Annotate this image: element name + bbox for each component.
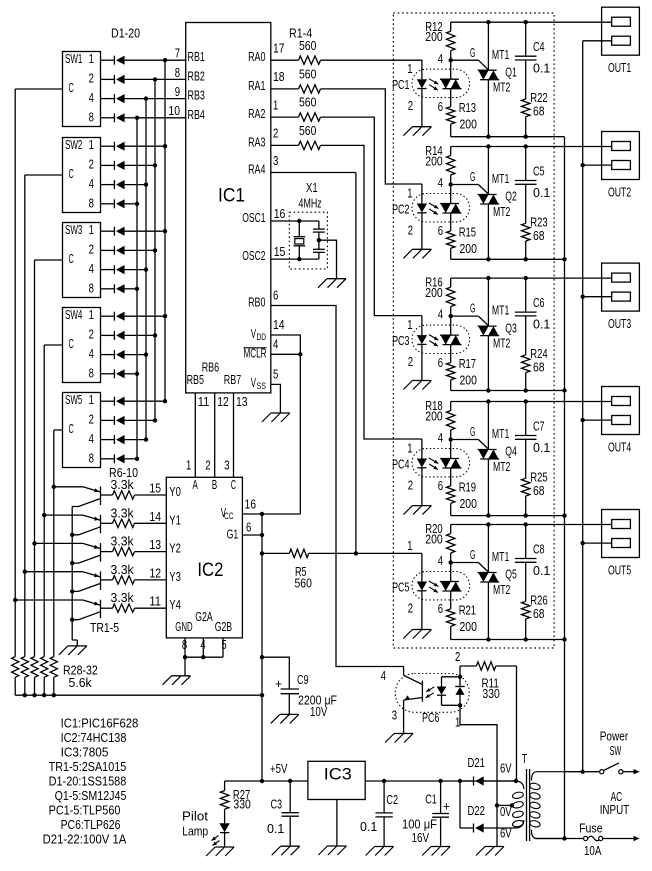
fuse 10A bbox=[584, 836, 588, 840]
junction OUT rail at switch line bbox=[581, 770, 585, 774]
resistor R19 200 bbox=[447, 486, 455, 503]
svg-text:C3: C3 bbox=[271, 797, 283, 811]
svg-text:2: 2 bbox=[89, 243, 94, 257]
svg-text:4: 4 bbox=[89, 347, 94, 361]
svg-text:OUT3: OUT3 bbox=[608, 317, 631, 331]
junction SW3 row1 bbox=[163, 229, 167, 233]
svg-text:560: 560 bbox=[299, 96, 316, 110]
light arrows PC3 bbox=[429, 335, 439, 341]
wire OUT1 lower terminal bbox=[583, 40, 612, 42]
transformer T secondary bbox=[516, 781, 524, 789]
svg-text:1: 1 bbox=[89, 52, 94, 66]
wire RA1 bend to PC2 bbox=[321, 89, 422, 184]
svg-text:560: 560 bbox=[295, 577, 312, 591]
node 4 of PC3 bbox=[449, 314, 453, 318]
diode D15 bbox=[113, 350, 115, 359]
svg-text:16: 16 bbox=[245, 498, 257, 512]
svg-text:2: 2 bbox=[408, 224, 413, 238]
svg-text:3: 3 bbox=[392, 708, 397, 722]
optocoupler PC3 outline bbox=[412, 325, 470, 353]
junction SW3 row2 bbox=[153, 248, 157, 252]
ground transformer 0V bbox=[485, 846, 504, 848]
light arrows PC4 bbox=[429, 458, 439, 464]
svg-text:+: + bbox=[275, 677, 282, 691]
transistor TR3 emitter wire bbox=[35, 542, 83, 544]
svg-text:R22: R22 bbox=[530, 91, 547, 105]
switch SW1 bbox=[63, 52, 101, 127]
resistor R5 560 bbox=[289, 549, 308, 557]
wire diode D14 to bus bbox=[125, 334, 155, 336]
wire primary bottom to fuse bbox=[535, 838, 586, 840]
wire diode D1 to bus bbox=[125, 59, 165, 61]
wire OUT5 lower terminal bbox=[583, 542, 612, 544]
wire bus weight-2 vertical bbox=[154, 79, 156, 420]
svg-text:1: 1 bbox=[407, 318, 412, 332]
wire diode D7 to bus bbox=[125, 184, 146, 186]
ground C9 bbox=[280, 713, 299, 715]
svg-text:4: 4 bbox=[381, 669, 386, 683]
junction C3 at +5V bbox=[288, 779, 292, 783]
wire SW1 common bus vertical bbox=[14, 89, 16, 657]
wire SW2 pin8 to diode bbox=[101, 203, 115, 205]
transistor TR5 emitter wire bbox=[54, 486, 83, 488]
svg-text:1: 1 bbox=[455, 715, 460, 729]
resistor R14 200 bbox=[450, 147, 452, 156]
wire SW2 pin1 to diode bbox=[101, 145, 115, 147]
resistor R9 3.3k bbox=[101, 579, 113, 581]
ground IC2 bbox=[172, 675, 191, 677]
svg-text:1: 1 bbox=[407, 442, 412, 456]
diode D18 bbox=[113, 416, 115, 425]
light arrows PC1 bbox=[429, 79, 439, 85]
junction C4 bottom rail bbox=[524, 135, 528, 139]
svg-text:SW4: SW4 bbox=[65, 308, 82, 322]
svg-text:Q5: Q5 bbox=[505, 568, 517, 582]
junction pin8 tie bbox=[183, 655, 187, 659]
junction pin4 tie bbox=[201, 655, 205, 659]
svg-text:SW: SW bbox=[610, 744, 622, 758]
wire SW3 pin8 to diode bbox=[101, 288, 115, 290]
svg-text:2: 2 bbox=[408, 99, 413, 113]
diode D5 bbox=[113, 142, 115, 151]
resistor R1 560 bbox=[271, 59, 299, 61]
svg-text:SW3: SW3 bbox=[65, 223, 82, 237]
junction OUT5 on rail bbox=[581, 541, 585, 545]
capacitor C5 0.1 bbox=[525, 147, 527, 181]
opto-triac of PC4 bbox=[450, 440, 452, 459]
junction R31 on common line bbox=[42, 693, 46, 697]
svg-text:6: 6 bbox=[438, 356, 443, 370]
wire diode D4 to bus bbox=[125, 117, 137, 119]
junction 0V line bbox=[495, 803, 499, 807]
svg-text:200: 200 bbox=[425, 30, 442, 44]
opto-triac of PC5 bbox=[450, 563, 452, 582]
wire SW3 pin4 to diode bbox=[101, 269, 115, 271]
svg-text:200: 200 bbox=[460, 374, 477, 388]
wire diode D8 to bus bbox=[125, 203, 137, 205]
svg-text:16V: 16V bbox=[412, 831, 430, 845]
IC U2 74HC138 IC2 body bbox=[166, 477, 242, 638]
svg-text:6: 6 bbox=[438, 602, 443, 616]
svg-text:INPUT: INPUT bbox=[600, 803, 630, 817]
resistor R18 200 bbox=[450, 402, 452, 411]
wire primary top to switch bbox=[563, 771, 601, 773]
junction Q2 MT1 top rail bbox=[486, 144, 490, 148]
svg-text:12: 12 bbox=[217, 395, 229, 409]
connector OUT4 bbox=[602, 387, 640, 435]
svg-text:C7: C7 bbox=[533, 420, 545, 434]
svg-text:OSC1: OSC1 bbox=[242, 211, 265, 225]
svg-text:6: 6 bbox=[246, 521, 251, 535]
svg-text:R13: R13 bbox=[459, 101, 476, 115]
svg-text:4: 4 bbox=[89, 91, 94, 105]
svg-text:D1-20: D1-20 bbox=[111, 27, 140, 41]
wire IC3 input rail bbox=[365, 780, 516, 782]
junction VCC rail to C9 bbox=[260, 655, 264, 659]
transistor TR2 emitter wire bbox=[25, 571, 83, 573]
wire PC1 cathode to ground bbox=[421, 89, 423, 127]
svg-text:MT1: MT1 bbox=[492, 304, 509, 318]
svg-text:IC3: IC3 bbox=[324, 764, 352, 783]
wire diode D19 to bus bbox=[125, 439, 146, 441]
junction collector bus row 2 bbox=[70, 561, 74, 565]
junction Q4 MT2 bottom rail bbox=[486, 513, 490, 517]
svg-text:1: 1 bbox=[89, 393, 94, 407]
junction OUT2 on rail bbox=[581, 163, 585, 167]
svg-text:6: 6 bbox=[273, 289, 278, 303]
svg-text:Y0: Y0 bbox=[169, 485, 181, 499]
svg-text:560: 560 bbox=[299, 124, 316, 138]
wire G2A pin 4 bbox=[202, 638, 204, 657]
svg-text:Q2: Q2 bbox=[505, 190, 517, 204]
wire SW2 common C bbox=[25, 174, 63, 176]
junction G1 rail bbox=[260, 533, 264, 537]
light arrows PC5 bbox=[429, 581, 439, 587]
wire diode D10 to bus bbox=[125, 249, 155, 251]
capacitor C3 0.1 bbox=[289, 781, 291, 813]
optocoupler PC2 outline bbox=[412, 194, 470, 222]
junction C5 top rail bbox=[524, 144, 528, 148]
transistor TR5 2SA1015 bbox=[100, 487, 102, 506]
junction SW4 row4 bbox=[144, 352, 148, 356]
svg-text:RA0: RA0 bbox=[248, 50, 265, 64]
diode D17 bbox=[113, 397, 115, 406]
svg-text:4: 4 bbox=[200, 638, 205, 652]
wire R28-32 common line bbox=[15, 694, 262, 696]
wire MT2 common rail bbox=[564, 137, 566, 839]
svg-text:9: 9 bbox=[175, 85, 180, 99]
junction C4 top rail bbox=[524, 20, 528, 24]
wire VSS pin 5 bbox=[271, 384, 281, 413]
transistor TR4 2SA1015 bbox=[100, 515, 102, 534]
transformer core bbox=[526, 769, 528, 841]
junction bus weight-4 at RB3 bbox=[144, 96, 148, 100]
wire SW2 pin2 to diode bbox=[101, 164, 115, 166]
diode D20 bbox=[113, 454, 115, 463]
svg-text:6V: 6V bbox=[500, 826, 512, 840]
wire VCC pin 16 bbox=[242, 513, 300, 515]
resistor R3 560 bbox=[271, 116, 299, 118]
junction R32 on common line bbox=[52, 693, 56, 697]
svg-text:R15: R15 bbox=[459, 226, 476, 240]
capacitor C7 0.1 bbox=[525, 402, 527, 436]
svg-text:200: 200 bbox=[460, 620, 477, 634]
IC U1 PIC16F628 IC1 body bbox=[186, 23, 271, 393]
svg-text:MT1: MT1 bbox=[492, 427, 509, 441]
svg-text:T: T bbox=[522, 752, 528, 766]
junction emitter on SW4 bus bbox=[42, 513, 46, 517]
svg-text:8: 8 bbox=[89, 110, 94, 124]
svg-text:IC1: IC1 bbox=[218, 186, 245, 207]
svg-text:18: 18 bbox=[273, 70, 285, 84]
junction MT2 rail channel 3 bbox=[562, 388, 566, 392]
wire OUT2 lower terminal bbox=[583, 164, 612, 166]
svg-text:2: 2 bbox=[408, 479, 413, 493]
svg-text:1: 1 bbox=[407, 539, 412, 553]
capacitor C6 0.1 bbox=[525, 278, 527, 312]
svg-text:8: 8 bbox=[175, 66, 180, 80]
svg-text:4: 4 bbox=[89, 432, 94, 446]
capacitor C2 0.1 bbox=[383, 781, 385, 813]
triac Q5 SM12J45 bbox=[487, 525, 489, 573]
svg-text:MT2: MT2 bbox=[493, 460, 510, 474]
svg-text:C8: C8 bbox=[533, 543, 545, 557]
svg-text:X1: X1 bbox=[306, 181, 318, 195]
wire diode D6 to bus bbox=[125, 164, 155, 166]
svg-text:B: B bbox=[212, 478, 217, 492]
resistor R24 68 bbox=[522, 355, 530, 373]
ground PC3 bbox=[412, 380, 431, 382]
diode D10 bbox=[113, 246, 115, 255]
junction Q3 MT2 bottom rail bbox=[486, 388, 490, 392]
resistor R11 330 bbox=[460, 665, 476, 667]
wire SW3 pin1 to diode bbox=[101, 230, 115, 232]
ground VSS bbox=[271, 412, 290, 414]
wire SW1 pin1 to diode bbox=[101, 59, 115, 61]
junction MT2 rail channel 4 bbox=[562, 513, 566, 517]
capacitor C1 100uF bbox=[440, 781, 442, 814]
svg-text:G2B: G2B bbox=[215, 620, 232, 634]
wire R29 to +5V line bbox=[24, 677, 26, 695]
svg-text:C1: C1 bbox=[425, 793, 437, 807]
triac Q4 SM12J45 bbox=[487, 402, 489, 450]
svg-text:D1-20:1SS1588: D1-20:1SS1588 bbox=[49, 775, 127, 789]
wire VCC rail down bbox=[261, 514, 263, 781]
node 4 of PC5 bbox=[449, 560, 453, 564]
svg-text:3.3k: 3.3k bbox=[111, 506, 135, 520]
junction VCC rail at +5V bbox=[260, 779, 264, 783]
svg-text:Q1: Q1 bbox=[505, 65, 517, 79]
svg-text:68: 68 bbox=[533, 360, 545, 374]
svg-text:RB3: RB3 bbox=[188, 89, 205, 103]
svg-text:RA1: RA1 bbox=[248, 79, 265, 93]
gate wire Q4 bbox=[451, 439, 479, 441]
svg-text:2: 2 bbox=[89, 158, 94, 172]
svg-text:8: 8 bbox=[89, 451, 94, 465]
svg-text:+: + bbox=[443, 800, 450, 814]
wire RB6 pin to IC2 B bbox=[214, 393, 216, 477]
diode D11 bbox=[113, 265, 115, 274]
svg-text:Y3: Y3 bbox=[169, 570, 181, 584]
svg-text:CC: CC bbox=[224, 511, 234, 521]
opto-triac of PC2 bbox=[450, 185, 452, 204]
wire RB1 line to IC1 pin 7 bbox=[165, 59, 186, 61]
wire PC3 anode bbox=[421, 316, 423, 336]
wire PC5 pin6 to R21 bbox=[450, 591, 452, 609]
svg-text:RB2: RB2 bbox=[188, 69, 205, 83]
switch SW2 bbox=[63, 138, 101, 213]
svg-text:8: 8 bbox=[182, 638, 187, 652]
resistor R28 5.6k bbox=[12, 657, 19, 678]
diode D1 bbox=[113, 56, 115, 65]
svg-text:C9: C9 bbox=[297, 673, 309, 687]
svg-text:4: 4 bbox=[438, 52, 443, 66]
diode D9 bbox=[113, 227, 115, 236]
svg-text:13: 13 bbox=[236, 395, 248, 409]
svg-text:200: 200 bbox=[425, 409, 442, 423]
wire SW3 pin2 to diode bbox=[101, 249, 115, 251]
junction SW5 row4 bbox=[144, 437, 148, 441]
svg-text:10: 10 bbox=[168, 104, 180, 118]
resistor R13 200 bbox=[447, 107, 455, 124]
svg-text:SW5: SW5 bbox=[65, 393, 82, 407]
junction SW2 row1 bbox=[163, 144, 167, 148]
junction C8 bottom rail bbox=[524, 637, 528, 641]
gate wire Q5 bbox=[451, 562, 479, 564]
wire diode D5 to bus bbox=[125, 145, 165, 147]
junction C7 top rail bbox=[524, 399, 528, 403]
junction OUT4 on rail bbox=[581, 418, 585, 422]
resistor R6 3.3k bbox=[101, 494, 113, 496]
junction collector bus row 4 bbox=[70, 618, 74, 622]
wire R30 to +5V line bbox=[34, 677, 36, 695]
svg-text:3.3k: 3.3k bbox=[111, 563, 135, 577]
junction D branch bbox=[458, 779, 462, 783]
capacitor load C bottom bbox=[318, 240, 320, 249]
svg-text:0.1: 0.1 bbox=[533, 62, 550, 76]
junction MT2 rail at fuse line bbox=[562, 836, 566, 840]
junction Q5 MT2 bottom rail bbox=[486, 637, 490, 641]
wire diode D12 to bus bbox=[125, 288, 137, 290]
connector OUT1 bbox=[602, 7, 640, 55]
diode D3 bbox=[113, 94, 115, 103]
LED of PC3 bbox=[417, 335, 427, 344]
svg-text:R24: R24 bbox=[530, 347, 547, 361]
svg-text:PC4: PC4 bbox=[392, 458, 409, 472]
junction SW2 row2 bbox=[153, 163, 157, 167]
wire PC2 cathode to ground bbox=[421, 213, 423, 250]
wire 0V tap bbox=[497, 804, 512, 806]
svg-text:TR1-5:2SA1015: TR1-5:2SA1015 bbox=[49, 760, 127, 774]
junction emitter on SW1 bus bbox=[13, 598, 17, 602]
gate wire Q3 bbox=[451, 315, 479, 317]
wire R31 to +5V line bbox=[43, 677, 45, 695]
svg-text:G: G bbox=[470, 548, 475, 562]
svg-text:C: C bbox=[69, 337, 74, 351]
svg-text:11: 11 bbox=[149, 595, 161, 609]
gate wire Q2 bbox=[451, 184, 479, 186]
wire RA2 bend to PC3 bbox=[321, 117, 422, 316]
resistor R7 3.3k bbox=[101, 522, 113, 524]
svg-text:2: 2 bbox=[89, 328, 94, 342]
wire SW2 common bus vertical bbox=[24, 175, 26, 657]
svg-text:A: A bbox=[193, 478, 199, 492]
wire G1 pin 6 bbox=[242, 534, 262, 536]
svg-text:2: 2 bbox=[89, 72, 94, 86]
wire PC2 anode bbox=[421, 184, 423, 204]
resistor R31 5.6k bbox=[41, 657, 48, 678]
wire SW5 pin4 to diode bbox=[101, 439, 115, 441]
junction emitter on SW2 bus bbox=[23, 570, 27, 574]
triac Q3 SM12J45 bbox=[487, 278, 489, 326]
wire SW5 pin8 to diode bbox=[101, 458, 115, 460]
wire PC4 cathode to ground bbox=[421, 468, 423, 506]
ground PC4 bbox=[412, 505, 431, 507]
junction emitter on SW3 bus bbox=[32, 541, 36, 545]
svg-text:6: 6 bbox=[438, 479, 443, 493]
optocoupler PC4 outline bbox=[412, 449, 470, 477]
svg-text:D21-22:100V 1A: D21-22:100V 1A bbox=[43, 833, 127, 847]
svg-text:3.3k: 3.3k bbox=[111, 535, 135, 549]
svg-text:RA3: RA3 bbox=[248, 135, 265, 149]
svg-text:OSC2: OSC2 bbox=[242, 249, 265, 263]
wire PC6 emitter to ground bbox=[403, 700, 405, 734]
resistor R20 200 bbox=[450, 525, 452, 534]
wire PC5 anode bbox=[421, 553, 423, 581]
svg-text:4MHz: 4MHz bbox=[299, 197, 322, 211]
diode D16 bbox=[113, 369, 115, 378]
svg-text:6V: 6V bbox=[500, 761, 512, 775]
svg-text:2: 2 bbox=[273, 127, 278, 141]
ground PC5 bbox=[412, 629, 431, 631]
svg-text:4: 4 bbox=[89, 177, 94, 191]
svg-text:16: 16 bbox=[274, 207, 286, 221]
wire channel 4 top rail bbox=[451, 401, 612, 403]
junction bus weight-8 at RB4 bbox=[135, 116, 139, 120]
wire PC3 cathode to ground bbox=[421, 344, 423, 380]
diode D19 bbox=[113, 435, 115, 444]
junction SW2 row4 bbox=[144, 182, 148, 186]
svg-text:0.1: 0.1 bbox=[267, 822, 284, 836]
junction R30 on common line bbox=[32, 693, 36, 697]
svg-text:MT2: MT2 bbox=[493, 205, 510, 219]
svg-text:G: G bbox=[470, 302, 475, 316]
ground X1 bbox=[327, 278, 346, 280]
junction collector bus row 1 bbox=[70, 533, 74, 537]
wire PC6 pin2 to R11 bbox=[459, 666, 461, 677]
svg-text:14: 14 bbox=[273, 318, 285, 332]
svg-text:DD: DD bbox=[257, 332, 267, 342]
svg-text:4: 4 bbox=[438, 554, 443, 568]
capacitor C4 0.1 bbox=[525, 22, 527, 56]
svg-text:4: 4 bbox=[438, 308, 443, 322]
wire R28 to +5V line bbox=[14, 677, 16, 695]
svg-text:RA4: RA4 bbox=[248, 163, 265, 177]
svg-text:3.3k: 3.3k bbox=[111, 478, 135, 492]
svg-text:SS: SS bbox=[257, 381, 267, 391]
svg-text:G: G bbox=[470, 46, 475, 60]
wire R11 to 6V tap bbox=[516, 666, 518, 781]
resistor R10 3.3k bbox=[101, 607, 113, 609]
wire channel 5 top rail bbox=[451, 524, 612, 526]
wire diode D18 to bus bbox=[125, 419, 155, 421]
svg-text:C4: C4 bbox=[533, 40, 545, 54]
ground C3 bbox=[281, 845, 300, 847]
junction OUT3 on rail bbox=[581, 295, 585, 299]
junction R29 on common line bbox=[23, 693, 27, 697]
wire SW3 common C bbox=[35, 259, 63, 261]
svg-text:200: 200 bbox=[460, 497, 477, 511]
